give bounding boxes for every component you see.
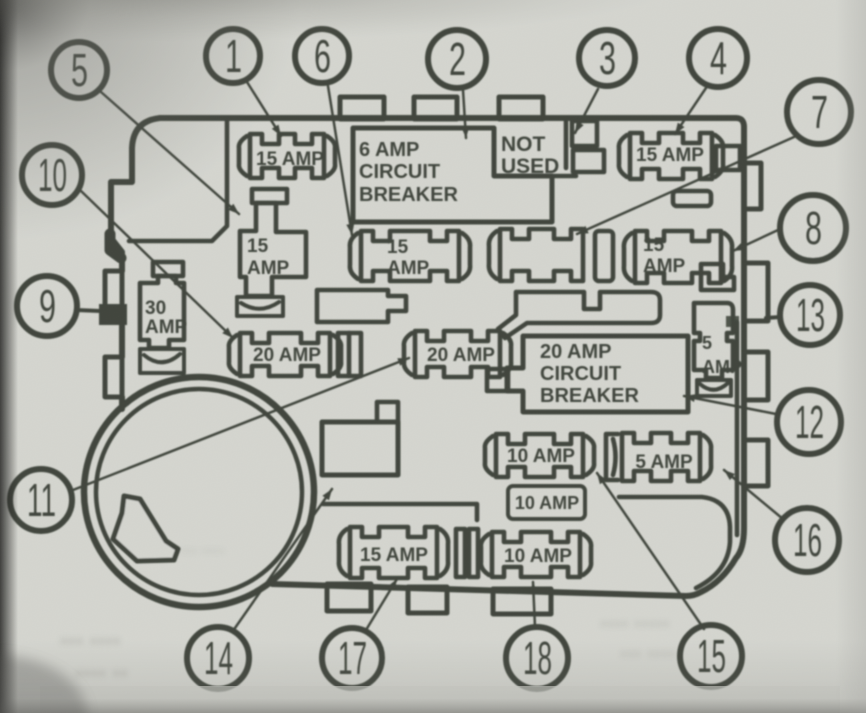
leader 2 — [463, 90, 466, 138]
tall rectangle connector (#14) — [322, 422, 398, 475]
callout circle 12 — [777, 390, 841, 454]
5 AMP vertical fuse (#13/#12) — [701, 264, 734, 290]
20 AMP circuit breaker box (#12 area) — [507, 336, 688, 412]
callout circle 13 — [780, 285, 840, 345]
blank area boundary (top-left of panel) — [129, 120, 227, 241]
callout circle 9 — [17, 276, 77, 336]
callout circle 1 — [206, 29, 260, 83]
fuse 15 AMP (row2 right, #8) — [635, 231, 721, 283]
leader 6 — [328, 86, 352, 235]
callout circle 11 — [10, 469, 72, 531]
fuse 10 AMP (row6 right, #18) — [492, 532, 580, 577]
white band over circle bottoms — [40, 686, 840, 713]
fuse 5 AMP (row4 right, #16) — [622, 433, 700, 481]
leader 1 — [247, 82, 281, 136]
right tab A — [744, 163, 761, 209]
scan vignette edges — [0, 0, 300, 240]
inner wall right — [735, 322, 740, 535]
bottom tab 3 — [493, 589, 551, 614]
big round opening inner ring — [96, 389, 302, 595]
fuse 15 AMP (row2 left, #6) — [361, 231, 459, 281]
leader 18 — [533, 582, 535, 627]
internal line below tall rect — [323, 504, 477, 520]
callout circle 5 — [51, 42, 107, 98]
small bump left of breaker box — [487, 369, 508, 391]
faint bleed-through smudges — [60, 543, 675, 685]
callout circle 15 — [680, 625, 742, 687]
leader 8 — [733, 230, 778, 251]
leader 16 — [724, 470, 783, 519]
callout circle 10 — [22, 145, 82, 205]
callout circle 2 — [428, 30, 486, 88]
leader 14 — [235, 489, 332, 628]
NOT USED region — [552, 121, 576, 176]
bottom tab 1 — [327, 584, 371, 611]
key-shaped cutout — [113, 496, 178, 561]
fuse 15 AMP (row1 right, #4) — [630, 133, 712, 179]
top tab 1 — [340, 97, 384, 119]
fuse 30 AMP (#9) — [153, 262, 183, 276]
right tab D — [744, 440, 768, 486]
leader 15 — [597, 473, 704, 629]
leader 3 — [575, 89, 598, 133]
leader 12 — [684, 396, 776, 414]
callout circle 3 — [579, 30, 635, 86]
wide low connector above breaker — [498, 292, 660, 338]
boxed 10 AMP label — [508, 486, 585, 519]
leader 10 — [80, 190, 233, 338]
right tab B — [744, 263, 768, 321]
fuse 15 AMP (row1 left, #1) — [250, 134, 324, 178]
leader 13 — [766, 317, 780, 318]
callout circle 16 — [775, 508, 839, 572]
connector bars between row6 fuses — [456, 529, 465, 577]
fuse 10 AMP (row4 left, #15) — [496, 434, 583, 477]
left tab 2 — [105, 357, 122, 397]
leader 11 — [73, 358, 409, 490]
callout circle 14 — [187, 627, 249, 689]
big round opening outer ring — [84, 377, 314, 607]
connector bars between 20A fuses — [338, 333, 361, 376]
leader 13 wall connector bar — [726, 316, 739, 327]
row2 middle-right bar — [595, 231, 613, 281]
callout circle 17 — [322, 628, 382, 688]
fuse 20 AMP (row3 middle, #11) — [415, 331, 500, 377]
left-middle connector — [317, 290, 406, 322]
tall fuse 15 AMP (#5) — [252, 189, 287, 203]
leader 4 — [675, 88, 706, 134]
leader 5 — [101, 92, 239, 214]
bottom tab 2 — [408, 587, 447, 613]
callout circle 7 — [787, 80, 851, 144]
top tab 2 — [414, 97, 457, 119]
fuse panel outer outline — [160, 118, 744, 596]
fuse (row2 middle, #7) — [500, 229, 583, 281]
callout circle 8 — [780, 195, 846, 261]
leader 17 — [366, 579, 397, 630]
leader 7 — [577, 137, 794, 234]
fuse 20 AMP (row3 left, #10) — [240, 333, 330, 376]
6 AMP circuit breaker box (#2) — [353, 128, 552, 222]
inner wall bottom-right corner — [619, 497, 730, 588]
panel left edge lower — [119, 319, 125, 409]
thick left blob — [110, 234, 121, 258]
row1 right fuse wall link — [716, 146, 740, 170]
right tab C — [744, 352, 768, 400]
small rounded connector below row1 right fuse — [673, 191, 711, 206]
small connector under top edge (right of NOT USED) — [572, 121, 597, 146]
callout circle 18 — [506, 627, 568, 689]
callout circle 6 — [295, 29, 349, 83]
callout circle 4 — [689, 29, 747, 87]
top tab 3 — [499, 97, 543, 119]
left tab 1 (with dark connector square) — [105, 271, 122, 319]
fuse 15 AMP (row6 left, #17) — [350, 527, 437, 578]
leader 9 — [76, 310, 100, 311]
